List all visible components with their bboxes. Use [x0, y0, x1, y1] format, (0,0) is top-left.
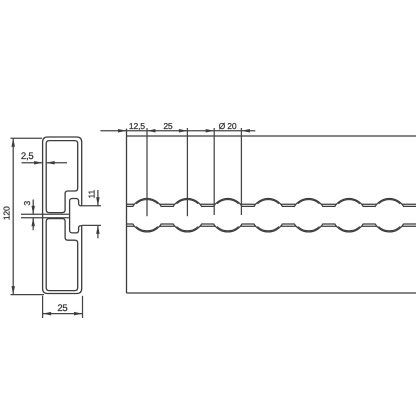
arrow at hole1 center pointing left: [147, 129, 156, 133]
arrow at hole3 left pointing right: [206, 129, 215, 133]
arrow 25 right pointing right: [74, 312, 83, 316]
extension line hole 3 right edge: [240, 128, 242, 215]
arrow at hole3 right pointing left: [241, 129, 250, 133]
hole erase masks: [130, 199, 406, 232]
dim 11 line upper: [97, 190, 99, 206]
arrow 25 left pointing left: [43, 312, 52, 316]
extension line hole 3 left edge: [213, 128, 215, 215]
dimension texts: [129, 121, 237, 131]
dim 120 extension bottom: [11, 294, 45, 296]
extension line hole 1 center: [146, 128, 148, 216]
slot band outer top line: [127, 203, 416, 205]
arrow 120 bottom pointing down: [11, 286, 15, 295]
dim 11 extension bottom: [82, 224, 101, 226]
extension and dimension lines of top dimensions: [100, 128, 255, 216]
side view slot band lines: [127, 204, 416, 226]
svg-text:25: 25: [163, 121, 173, 131]
arrowheads: [11, 129, 249, 315]
arrow 3 upper pointing down: [31, 206, 35, 215]
arrow 11 lower pointing up: [96, 225, 100, 234]
profile outer contour (cross-section view): [43, 137, 82, 294]
arrow at side view left edge pointing right: [118, 129, 127, 133]
dim 2,5 leader left: [22, 162, 43, 164]
profile top chamber cavity: [46, 141, 77, 213]
dim 25 line: [43, 313, 83, 315]
arrow 2,5 left pointing right: [34, 161, 43, 165]
arrow 11 upper pointing down: [96, 197, 100, 206]
hole chamfer lens arcs: [136, 200, 400, 231]
svg-text:12,5: 12,5: [129, 121, 145, 131]
arrow 2,5 right pointing left: [46, 161, 55, 165]
svg-text:2,5: 2,5: [21, 151, 34, 162]
arrow at hole2 center pointing right: [179, 129, 188, 133]
top dimension line: [100, 130, 255, 132]
dim 3 line lower: [32, 218, 34, 230]
side view bottom edge: [127, 292, 416, 294]
side view body edges: [127, 129, 416, 293]
slot band inner top line: [127, 205, 416, 207]
screw channel line top (3mm slot), extension line for dim 3: [21, 213, 70, 215]
screw channel line bottom: [21, 217, 70, 219]
svg-text:11: 11: [86, 190, 96, 199]
svg-text:3: 3: [22, 201, 32, 206]
side view top edge: [127, 135, 416, 137]
arrow 120 top pointing up: [11, 138, 15, 147]
dim 2,5 leader right: [46, 162, 67, 164]
svg-text:120: 120: [2, 206, 12, 220]
profile bottom chamber cavity: [46, 219, 77, 291]
extension line hole 2 center: [186, 128, 188, 216]
slot band inner bottom line: [127, 223, 416, 225]
dim 25 extension right: [82, 296, 84, 318]
dim 120 extension top: [11, 137, 43, 139]
dim 3 line upper: [32, 200, 34, 215]
slot band outer bottom line: [127, 225, 416, 227]
dim 25 extension left: [42, 296, 44, 318]
side view left edge with extension above: [126, 129, 128, 293]
hole scallop arcs: [133, 198, 404, 231]
arrow 3 lower pointing up: [31, 218, 35, 227]
svg-text:25: 25: [57, 303, 67, 314]
dim 120 line: [12, 138, 14, 294]
T-slot mushroom cap and mouth: [70, 199, 82, 233]
svg-text:Ø 20: Ø 20: [219, 121, 237, 131]
dim 11 extension top: [82, 205, 101, 207]
dim 11 line lower: [97, 225, 99, 238]
